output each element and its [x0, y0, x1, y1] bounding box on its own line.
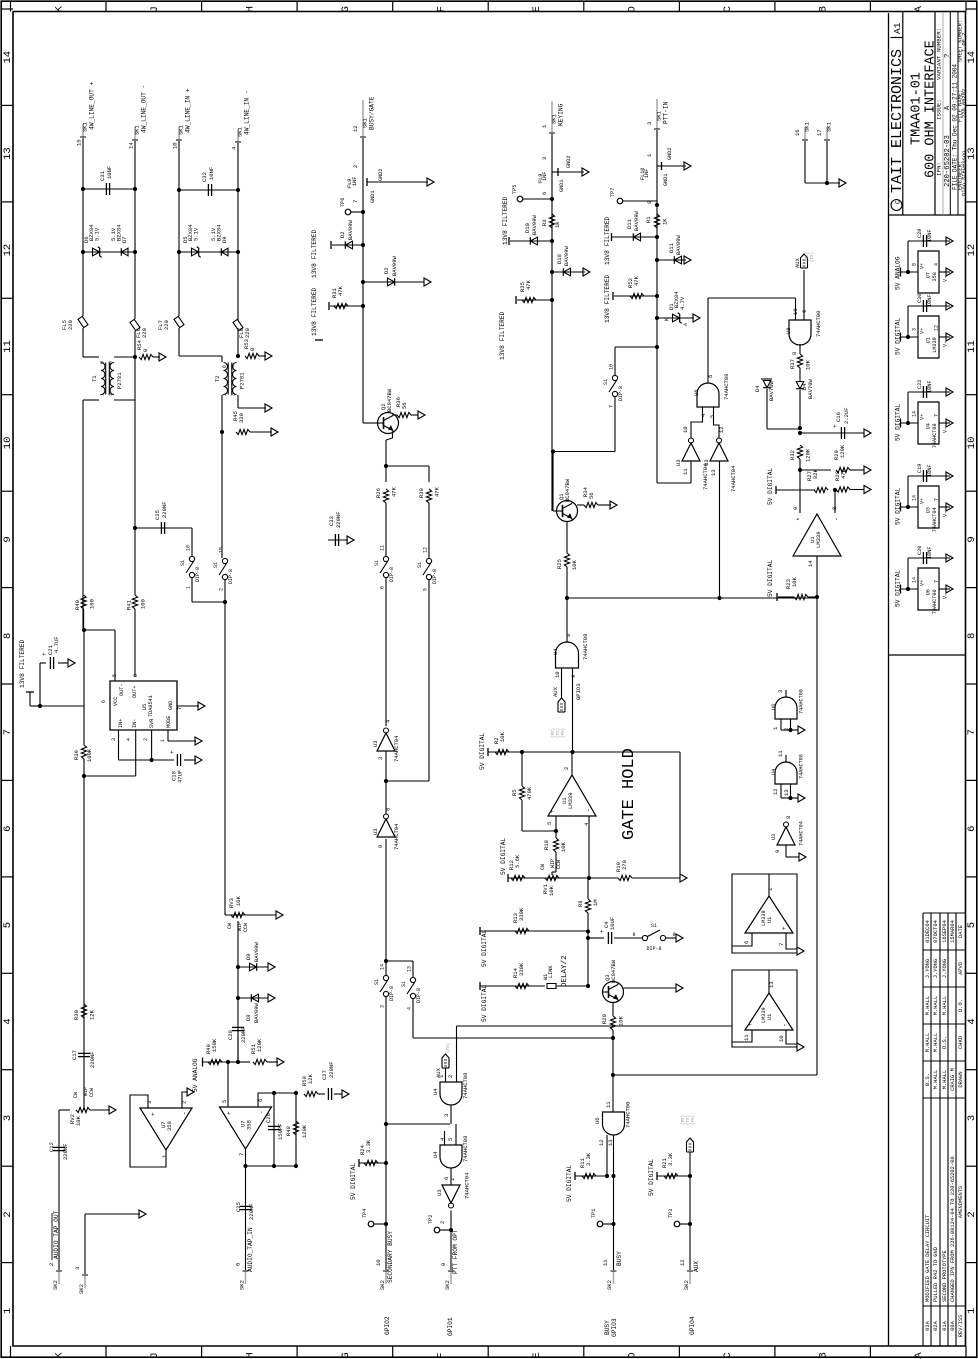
transistor Q3 BC847BW	[603, 982, 624, 1003]
svg-text:TP1: TP1	[591, 1209, 597, 1218]
zener D1 BZX84 4.7V	[655, 316, 659, 320]
U4d pin1 AUX flag	[445, 1068, 447, 1082]
svg-text:BAV70W: BAV70W	[768, 380, 775, 401]
wire to gate U8	[655, 345, 659, 349]
potentiometer RV3 10K	[225, 914, 251, 916]
svg-text:11: 11	[966, 340, 978, 353]
svg-text:M.HALL: M.HALL	[925, 1033, 931, 1052]
svg-text:AMENDMENTS: AMENDMENTS	[958, 1186, 964, 1218]
svg-text:R53: R53	[243, 339, 250, 349]
switch S1 15-2 DIP-8	[222, 558, 227, 563]
svg-text:17: 17	[816, 129, 823, 136]
svg-text:1: 1	[772, 726, 779, 730]
svg-text:B: B	[818, 6, 830, 12]
svg-text:SK2: SK2	[379, 1280, 386, 1290]
svg-text:220NF: 220NF	[240, 1026, 247, 1043]
svg-text:12: 12	[679, 1259, 686, 1266]
svg-text:U4: U4	[926, 423, 932, 429]
spare AND U4 74AHCT08 b	[775, 762, 797, 784]
svg-text:5V DIGITAL: 5V DIGITAL	[767, 560, 774, 597]
diode D18 BAV99W to gnd	[550, 270, 554, 274]
svg-text:U3: U3	[703, 459, 710, 466]
svg-text:TAIT ELECTRONICS: TAIT ELECTRONICS	[889, 49, 906, 193]
U7a pin2 wire to 5V	[182, 1092, 188, 1108]
U7b pin6 wire	[258, 1093, 274, 1107]
svg-text:P2781: P2781	[116, 372, 123, 389]
svg-text:SK2: SK2	[239, 1280, 246, 1290]
svg-text:AUX: AUX	[693, 1261, 700, 1272]
svg-text:9: 9	[672, 932, 675, 938]
svg-text:CCW: CCW	[243, 923, 249, 932]
svg-text:BAV99W: BAV99W	[633, 210, 640, 231]
svg-text:DIP-8: DIP-8	[389, 567, 395, 582]
svg-text:16: 16	[186, 545, 192, 551]
svg-text:5: 5	[423, 588, 429, 591]
svg-text:D: D	[627, 1352, 639, 1358]
svg-text:10K: 10K	[499, 731, 506, 742]
svg-text:10: 10	[778, 1035, 785, 1042]
svg-text:C29: C29	[917, 229, 923, 238]
op-amp U7 358 buffer B	[220, 1107, 272, 1149]
svg-text:1 OF 2: 1 OF 2	[961, 33, 967, 52]
resistor R30 12K	[81, 1004, 86, 1018]
svg-text:220: 220	[163, 320, 170, 330]
connector SK1 pin 15 4W_LINE_OUT+	[82, 124, 84, 137]
svg-text:?: ?	[944, 54, 952, 58]
svg-text:12K: 12K	[89, 1009, 96, 1020]
svg-text:47K: 47K	[525, 279, 532, 290]
svg-text:14: 14	[128, 142, 135, 149]
svg-text:G: G	[340, 6, 352, 12]
svg-text:5: 5	[966, 922, 978, 928]
svg-text:15: 15	[219, 547, 225, 553]
svg-text:D2: D2	[339, 231, 346, 238]
svg-text:56: 56	[401, 402, 408, 409]
U8 input pin 9 AUX flag	[803, 270, 805, 320]
svg-text:E: E	[531, 6, 543, 12]
svg-text:4: 4	[126, 738, 132, 741]
svg-text:4: 4	[934, 263, 940, 266]
svg-text:12: 12	[966, 244, 978, 257]
svg-text:-: -	[781, 1023, 788, 1027]
svg-text:R26: R26	[375, 488, 382, 498]
svg-text:220NF: 220NF	[328, 1061, 335, 1078]
svg-text:S1: S1	[374, 979, 380, 985]
svg-text:GPIO1: GPIO1	[447, 1317, 454, 1336]
ferrite bead FL7 220	[174, 316, 184, 327]
svg-text:47UF: 47UF	[177, 770, 184, 783]
svg-text:R30: R30	[73, 1010, 80, 1020]
svg-text:V+: V+	[920, 263, 926, 269]
switch S1 7-10 DIP-8 keying	[615, 346, 657, 348]
wire R41 chain	[134, 528, 136, 595]
svg-text:10: 10	[554, 671, 561, 678]
svg-text:5.1V: 5.1V	[193, 227, 200, 241]
svg-text:SK1: SK1	[804, 121, 811, 132]
capacitor C21 4.7UF	[82, 628, 86, 632]
svg-text:R38: R38	[418, 488, 425, 498]
connector SK2 pin 12 AUX GPIO4	[689, 1271, 691, 1284]
switch S1 11-6 DIP-8	[383, 556, 388, 561]
svg-text:5: 5	[221, 1100, 228, 1103]
svg-text:D2: D2	[383, 267, 390, 274]
node D4	[798, 426, 802, 430]
capacitor C35 220NF	[133, 526, 137, 530]
svg-text:74AHCT04: 74AHCT04	[393, 735, 400, 762]
svg-text:5V DIGITAL: 5V DIGITAL	[566, 1165, 573, 1202]
diode D11 BAV99W b to gnd	[655, 258, 659, 262]
svg-text:TMAA01-01: TMAA01-01	[910, 72, 925, 145]
svg-text:Dion Stevenson: Dion Stevenson	[961, 151, 967, 196]
svg-text:74AHCT08: 74AHCT08	[582, 634, 589, 660]
svg-text:4: 4	[700, 413, 707, 417]
svg-text:8: 8	[133, 674, 139, 677]
svg-text:10K: 10K	[805, 359, 812, 370]
svg-text:SK1: SK1	[134, 124, 141, 135]
svg-text:SK1: SK1	[237, 126, 244, 137]
svg-text:C: C	[722, 1352, 734, 1358]
svg-text:8: 8	[632, 932, 635, 938]
svg-text:8: 8	[2, 633, 14, 639]
svg-text:47K: 47K	[840, 468, 847, 479]
svg-text:R48: R48	[285, 1126, 292, 1136]
svg-text:BUSY: BUSY	[604, 1320, 611, 1335]
svg-text:S1: S1	[213, 562, 219, 568]
svg-text:T1: T1	[91, 375, 98, 382]
svg-text:6: 6	[541, 192, 548, 195]
svg-text:13: 13	[407, 966, 413, 972]
svg-text:6: 6	[380, 586, 386, 589]
svg-text:10NF: 10NF	[927, 547, 933, 559]
svg-text:82K: 82K	[812, 468, 819, 479]
svg-text:1: 1	[160, 739, 166, 742]
svg-text:U8: U8	[785, 327, 792, 334]
svg-text:GPIO3: GPIO3	[575, 683, 582, 700]
wire T1 tap down	[134, 400, 136, 528]
capacitor C4 10UF with switch S1 8-9	[586, 936, 590, 940]
AND gate U6 74AHCT08 a	[697, 383, 719, 407]
svg-text:10NF: 10NF	[927, 295, 933, 307]
net flag AUX GPIO4	[687, 1138, 694, 1152]
inverter U3 74AHCT04 d	[719, 461, 721, 598]
svg-text:C22: C22	[917, 380, 923, 389]
svg-text:C28: C28	[227, 1030, 234, 1040]
svg-text:(RX): (RX)	[681, 1115, 686, 1125]
svg-text:GPIO4: GPIO4	[689, 1316, 696, 1335]
U7a feedback loop wire	[130, 1095, 166, 1167]
svg-text:5V DIGITAL: 5V DIGITAL	[479, 733, 486, 770]
wire 13V8 rail with R40	[81, 595, 86, 609]
svg-text:U4: U4	[771, 769, 777, 775]
svg-text:(TX): (TX)	[810, 252, 815, 262]
svg-text:R25: R25	[556, 559, 563, 569]
svg-text:3.3K: 3.3K	[365, 1139, 372, 1153]
svg-text:SK2: SK2	[444, 1280, 451, 1290]
wire 13V8 audio rail down	[83, 630, 85, 745]
svg-text:8: 8	[966, 633, 978, 639]
svg-text:C16: C16	[835, 412, 842, 422]
svg-text:7: 7	[934, 580, 940, 583]
svg-text:GATE HOLD: GATE HOLD	[620, 748, 639, 840]
svg-text:B.S.: B.S.	[925, 1073, 931, 1086]
svg-text:1: 1	[222, 393, 228, 396]
svg-text:10: 10	[375, 1259, 382, 1266]
svg-text:+: +	[747, 1022, 754, 1026]
potentiometer RV2 10K	[59, 1109, 70, 1111]
connector SK1 pin 1 KEYING	[551, 101, 553, 133]
svg-text:8: 8	[785, 816, 792, 819]
svg-text:2: 2	[143, 738, 149, 741]
svg-text:TDA8541: TDA8541	[148, 695, 154, 717]
svg-text:U1: U1	[767, 917, 773, 923]
svg-text:BUSY/GATE: BUSY/GATE	[369, 96, 376, 130]
svg-text:13V8 FILTERED: 13V8 FILTERED	[311, 229, 318, 278]
svg-text:10NF: 10NF	[208, 167, 215, 180]
svg-text:GND1: GND1	[370, 191, 376, 203]
svg-text:M.HALL: M.HALL	[933, 996, 939, 1015]
svg-text:GND2: GND2	[378, 169, 384, 181]
U5 MODE pin 1	[167, 730, 169, 741]
svg-text:07OCT04: 07OCT04	[933, 920, 939, 943]
svg-text:5V DIGITAL: 5V DIGITAL	[481, 985, 488, 1022]
svg-text:U6: U6	[693, 389, 700, 396]
connector SK2 pin 10 SECONDARY BUSY GPIO2	[384, 1122, 388, 1126]
comparator U1 LM339 unused d	[732, 970, 797, 1047]
svg-text:13V8 FILTERED: 13V8 FILTERED	[604, 274, 611, 323]
svg-text:3.3K: 3.3K	[585, 1152, 592, 1166]
svg-text:5V DIGITAL: 5V DIGITAL	[648, 1159, 655, 1196]
svg-text:5V DIGITAL: 5V DIGITAL	[481, 930, 488, 967]
svg-text:CHKD: CHKD	[958, 1036, 964, 1049]
svg-text:C19: C19	[917, 464, 923, 473]
svg-text:V+: V+	[920, 328, 926, 334]
test point TP6	[345, 209, 351, 215]
switch S1 13-4 DIP-8	[386, 960, 413, 962]
svg-text:LM339: LM339	[815, 531, 822, 548]
svg-text:V-: V-	[943, 341, 949, 347]
svg-text:CRAIG M: CRAIG M	[950, 1068, 956, 1091]
svg-text:4: 4	[231, 146, 238, 150]
svg-text:7: 7	[352, 200, 359, 203]
svg-text:M.HALL: M.HALL	[933, 1070, 939, 1089]
amendments table	[922, 913, 924, 1346]
svg-text:BC847BW: BC847BW	[610, 959, 617, 983]
svg-text:R37: R37	[789, 359, 796, 369]
svg-text:14: 14	[912, 577, 918, 583]
svg-text:S1: S1	[401, 981, 407, 987]
svg-text:270: 270	[621, 860, 628, 870]
svg-text:14: 14	[912, 495, 918, 501]
connector SK1 pin 12 BUSY/GATE	[362, 100, 364, 137]
svg-text:3: 3	[377, 757, 384, 760]
svg-text:U7: U7	[926, 272, 932, 278]
svg-text:OUT+: OUT+	[132, 686, 138, 698]
svg-text:8: 8	[565, 634, 572, 637]
spare inverter U3 74AHCT04 f	[784, 822, 789, 827]
resistor R31 47K from 13V8	[361, 304, 365, 308]
wire comparator output net down and left	[816, 598, 818, 1075]
svg-text:M.HALL: M.HALL	[942, 1070, 948, 1089]
svg-text:01A: 01A	[942, 1320, 948, 1330]
svg-text:C31: C31	[99, 170, 106, 181]
svg-text:SECONDARY BUSY: SECONDARY BUSY	[387, 1231, 394, 1283]
svg-text:6: 6	[101, 700, 107, 703]
U5 SVR pin 2 with C18 47UF	[151, 730, 153, 760]
svg-text:PTT-IN: PTT-IN	[663, 101, 670, 124]
svg-text:470K: 470K	[526, 786, 533, 800]
capacitor C16 2.2UF	[800, 432, 864, 434]
svg-text:47K: 47K	[337, 285, 344, 296]
svg-text:TP4: TP4	[362, 1209, 368, 1218]
svg-text:BAV99W: BAV99W	[253, 1002, 260, 1023]
svg-text:+: +	[549, 809, 556, 813]
svg-text:11: 11	[605, 1101, 612, 1108]
svg-text:5: 5	[709, 415, 716, 418]
svg-text:-: -	[585, 808, 592, 812]
zener D9 BZX84	[221, 248, 228, 256]
long wire comparator output to Q1 node	[567, 597, 817, 599]
svg-text:V-: V-	[943, 427, 949, 433]
svg-text:1: 1	[646, 153, 653, 157]
svg-text:11: 11	[2, 340, 14, 353]
svg-text:R8: R8	[577, 900, 584, 907]
svg-text:+: +	[832, 424, 839, 428]
svg-text:2: 2	[966, 1211, 978, 1217]
svg-text:4: 4	[966, 1018, 978, 1024]
svg-text:2: 2	[563, 767, 570, 770]
svg-text:4W_LINE_OUT +: 4W_LINE_OUT +	[89, 81, 96, 130]
svg-text:+: +	[150, 1112, 157, 1116]
switch S1 16-1 DIP-8	[191, 528, 193, 556]
svg-text:D8: D8	[245, 1014, 252, 1021]
svg-text:4.7UF: 4.7UF	[53, 636, 60, 653]
svg-text:SK1: SK1	[82, 121, 89, 132]
svg-text:3: 3	[74, 1267, 81, 1270]
svg-text:-: -	[181, 1111, 188, 1115]
svg-text:U3: U3	[372, 828, 379, 835]
resistor R23 10K pullup	[778, 596, 794, 598]
svg-text:7: 7	[966, 729, 978, 735]
svg-text:C12: C12	[48, 1142, 55, 1152]
svg-text:6: 6	[222, 365, 228, 368]
svg-text:74AHCT00: 74AHCT00	[815, 311, 822, 337]
svg-text:358: 358	[166, 1121, 173, 1131]
svg-text:5V DIGITAL: 5V DIGITAL	[500, 838, 507, 875]
svg-text:V+: V+	[920, 498, 926, 504]
svg-text:74AHCT08: 74AHCT08	[462, 1136, 469, 1162]
svg-text:3: 3	[380, 1005, 386, 1008]
resistor R48 120K feedback	[295, 1093, 297, 1166]
svg-text:9: 9	[774, 850, 781, 853]
comparator U1 LM339 unused c	[732, 874, 797, 953]
svg-text:1: 1	[767, 887, 774, 891]
U5 IN+ pin 3 wire	[118, 730, 120, 760]
svg-text:DIP-8: DIP-8	[432, 569, 438, 584]
connector SK2 pin 9 PTT FROM OPT GPIO1	[450, 1271, 452, 1284]
svg-text:DIP-8: DIP-8	[416, 988, 422, 1003]
title block A1 cell	[891, 37, 903, 39]
svg-text:7: 7	[2, 729, 14, 735]
inverter U3 74AHCT04 a	[384, 728, 389, 733]
svg-text:13: 13	[710, 469, 717, 476]
svg-text:SK1: SK1	[551, 113, 558, 124]
resistor R45 330	[236, 429, 250, 434]
svg-text:1: 1	[2, 1308, 14, 1314]
svg-text:120K: 120K	[839, 444, 846, 458]
svg-text:IPN:: IPN:	[936, 162, 943, 176]
svg-text:6: 6	[966, 826, 978, 832]
test point TP5	[517, 196, 523, 202]
svg-text:11: 11	[602, 1259, 609, 1266]
wire y752 net down	[679, 752, 681, 878]
svg-text:220NF: 220NF	[248, 1203, 255, 1220]
svg-text:3: 3	[912, 328, 918, 331]
svg-text:10K: 10K	[560, 841, 567, 852]
svg-text:U4: U4	[432, 1088, 439, 1095]
svg-text:10K: 10K	[548, 885, 555, 896]
svg-text:1: 1	[186, 586, 192, 589]
svg-text:A: A	[913, 5, 925, 12]
svg-text:SK2: SK2	[78, 1284, 85, 1294]
svg-text:74AHCT00: 74AHCT00	[799, 689, 805, 714]
svg-text:11: 11	[682, 468, 689, 475]
resistor R39 100K	[81, 745, 86, 759]
svg-text:5.6K: 5.6K	[514, 854, 521, 868]
resistor R5 470K	[521, 752, 523, 786]
svg-text:SVR: SVR	[149, 719, 155, 728]
U7b output pin7 wire	[245, 1149, 247, 1166]
svg-text:PTT FROM OPT: PTT FROM OPT	[452, 1229, 459, 1274]
svg-text:GND1: GND1	[663, 174, 669, 186]
capacitor C17 220NF	[78, 1052, 90, 1054]
svg-text:14: 14	[807, 560, 814, 567]
svg-text:DIP-8: DIP-8	[195, 567, 201, 582]
svg-text:10: 10	[792, 308, 799, 315]
svg-text:10NF: 10NF	[927, 381, 933, 393]
diode D2 BAV99W a to 13V8	[361, 243, 365, 247]
U5 IN- pin 4 wire	[135, 730, 137, 776]
svg-text:R40: R40	[74, 600, 81, 610]
svg-text:C33: C33	[328, 516, 335, 526]
svg-text:2: 2	[219, 588, 225, 591]
svg-text:12: 12	[2, 244, 14, 257]
svg-text:330: 330	[238, 413, 245, 423]
svg-text:C25: C25	[235, 1202, 242, 1212]
svg-text:U6: U6	[926, 589, 932, 595]
svg-text:(TX): (TX)	[556, 728, 561, 738]
svg-text:J.YONG: J.YONG	[925, 959, 931, 978]
svg-text:M.HALL: M.HALL	[933, 1033, 939, 1052]
svg-text:16SEP04: 16SEP04	[942, 920, 948, 943]
svg-text:3: 3	[646, 122, 653, 125]
svg-text:220_65202: 220_65202	[961, 89, 967, 118]
svg-text:PULLED R42 TO GND: PULLED R42 TO GND	[933, 1247, 939, 1302]
svg-text:-: -	[746, 925, 753, 929]
wire GPIO2 to U4 gates	[386, 1123, 450, 1125]
svg-text:IN-: IN-	[132, 719, 138, 728]
connector SK1 pin 5 PTT-IN	[656, 99, 658, 129]
svg-text:V-: V-	[943, 276, 949, 282]
ferrite bead FL5 220	[78, 316, 88, 327]
svg-text:U6: U6	[771, 704, 777, 710]
svg-text:1K: 1K	[554, 221, 561, 228]
svg-text:11: 11	[743, 1034, 750, 1041]
svg-text:U1: U1	[767, 1014, 773, 1020]
svg-text:CW: CW	[540, 864, 546, 870]
svg-text:2: 2	[2, 1211, 14, 1217]
diode D8 BAV99W b	[236, 996, 240, 1000]
svg-text:5: 5	[2, 922, 14, 928]
